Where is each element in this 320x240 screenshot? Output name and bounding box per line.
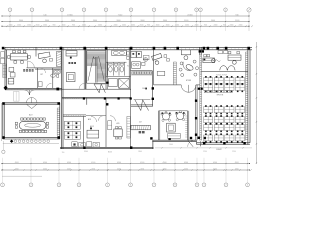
plant bbox=[144, 58, 148, 62]
right dimension line bbox=[256, 42, 257, 164]
office angled desk bbox=[152, 53, 170, 64]
svg-text:4500: 4500 bbox=[43, 162, 47, 164]
svg-text:1: 1 bbox=[203, 185, 204, 187]
columns bbox=[2, 47, 250, 149]
left bay window ladder bbox=[2, 64, 4, 78]
svg-text:2100: 2100 bbox=[195, 25, 199, 27]
svg-text:2250: 2250 bbox=[117, 168, 121, 170]
svg-text:2400: 2400 bbox=[114, 25, 118, 27]
svg-text:2400: 2400 bbox=[82, 25, 86, 27]
wc stalls bbox=[106, 62, 131, 76]
svg-text:150: 150 bbox=[62, 152, 65, 154]
svg-text:A112: A112 bbox=[90, 125, 94, 128]
glazing ladder bbox=[172, 62, 174, 85]
exec cluster 1 bbox=[203, 54, 221, 62]
entrance marker diamond bbox=[4, 86, 8, 90]
svg-text:6: 6 bbox=[130, 10, 131, 12]
svg-text:A18: A18 bbox=[88, 118, 91, 121]
shaft with X bbox=[106, 78, 129, 88]
tall cabinet x107 bbox=[108, 121, 112, 130]
svg-text:2400: 2400 bbox=[131, 25, 135, 27]
svg-text:1500: 1500 bbox=[156, 25, 160, 27]
svg-text:2250: 2250 bbox=[15, 168, 19, 170]
svg-text:1500: 1500 bbox=[27, 25, 31, 27]
svg-text:1: 1 bbox=[9, 10, 10, 12]
small bathroom upper-left bbox=[38, 70, 60, 88]
svg-text:2400: 2400 bbox=[9, 25, 13, 27]
svg-text:B1842: B1842 bbox=[216, 149, 221, 151]
svg-text:2100: 2100 bbox=[175, 25, 179, 27]
cabinet band x127 bbox=[127, 117, 130, 139]
svg-text:2100: 2100 bbox=[36, 25, 40, 27]
office mid-left desk bbox=[66, 51, 85, 90]
lobby exec desk bbox=[38, 52, 52, 63]
lobby cabinet bbox=[57, 52, 62, 67]
svg-text:2250: 2250 bbox=[91, 168, 95, 170]
svg-text:4500: 4500 bbox=[140, 162, 144, 164]
svg-text:4500: 4500 bbox=[184, 162, 188, 164]
svg-text:2250: 2250 bbox=[140, 168, 144, 170]
svg-text:E7988: E7988 bbox=[186, 80, 191, 82]
svg-text:20300: 20300 bbox=[187, 14, 193, 16]
svg-text:4500: 4500 bbox=[67, 162, 71, 164]
wall cabinets right block bbox=[218, 51, 223, 54]
corridor double door V bbox=[134, 100, 151, 111]
lobby partition stub bbox=[35, 47, 37, 56]
svg-text:1500: 1500 bbox=[166, 25, 170, 27]
svg-text:8: 8 bbox=[174, 185, 175, 187]
svg-text:5: 5 bbox=[107, 185, 108, 187]
middle room desk bbox=[87, 116, 103, 138]
misc labels bbox=[62, 144, 236, 154]
entrance double door bbox=[24, 90, 34, 95]
svg-text:2250: 2250 bbox=[184, 168, 188, 170]
sub-dimension line below building bbox=[155, 147, 252, 148]
left dimension bbox=[2, 103, 6, 154]
svg-text:3600: 3600 bbox=[19, 20, 23, 22]
svg-text:900: 900 bbox=[204, 25, 207, 27]
pantry top cabinets bbox=[131, 51, 149, 59]
partial third bottom tier left bbox=[2, 175, 42, 177]
svg-text:3300: 3300 bbox=[84, 151, 88, 153]
svg-text:1: 1 bbox=[2, 185, 3, 187]
svg-text:4500: 4500 bbox=[213, 162, 217, 164]
svg-text:9: 9 bbox=[196, 10, 197, 12]
bench bbox=[157, 71, 165, 75]
bottom dimension block bbox=[1, 158, 252, 187]
top dimension block bbox=[1, 8, 252, 31]
column at front wall bbox=[56, 88, 59, 91]
double door to lounge bbox=[181, 85, 196, 92]
svg-text:2250: 2250 bbox=[67, 168, 71, 170]
svg-text:4500: 4500 bbox=[15, 162, 19, 164]
lobby conference table bbox=[8, 50, 31, 63]
svg-text:2400: 2400 bbox=[122, 25, 126, 27]
svg-text:2400: 2400 bbox=[230, 25, 234, 27]
svg-text:1500: 1500 bbox=[43, 25, 47, 27]
svg-text:2: 2 bbox=[225, 10, 226, 12]
svg-text:1500: 1500 bbox=[62, 25, 66, 27]
svg-text:3600: 3600 bbox=[93, 20, 97, 22]
svg-text:A15: A15 bbox=[116, 122, 119, 125]
svg-text:2250: 2250 bbox=[203, 151, 207, 153]
svg-text:3600: 3600 bbox=[235, 20, 239, 22]
svg-text:1800: 1800 bbox=[138, 151, 142, 153]
porch steps bbox=[14, 92, 20, 102]
stair lower flight bbox=[94, 84, 105, 93]
svg-text:2250: 2250 bbox=[43, 168, 47, 170]
svg-text:900: 900 bbox=[53, 25, 56, 27]
lounge stools and table bbox=[179, 60, 198, 76]
washroom sinks bbox=[112, 50, 130, 59]
workstation cluster left room bbox=[65, 118, 92, 139]
svg-text:4: 4 bbox=[83, 10, 84, 12]
svg-text:3600: 3600 bbox=[140, 20, 144, 22]
svg-text:194: 194 bbox=[142, 88, 145, 90]
conference room double door bbox=[26, 98, 37, 109]
svg-text:2400: 2400 bbox=[169, 144, 173, 146]
exec cluster 2 bbox=[228, 51, 241, 64]
radiator chain row bbox=[131, 72, 153, 75]
svg-text:B203: B203 bbox=[108, 152, 112, 154]
interior walls bbox=[27, 47, 248, 148]
svg-text:19300: 19300 bbox=[67, 14, 73, 16]
svg-text:3600: 3600 bbox=[184, 20, 188, 22]
svg-text:8: 8 bbox=[175, 10, 176, 12]
svg-text:2: 2 bbox=[225, 185, 226, 187]
svg-text:A7: A7 bbox=[139, 120, 141, 123]
svg-text:4500: 4500 bbox=[235, 162, 239, 164]
svg-text:3600: 3600 bbox=[116, 20, 120, 22]
bottom fixtures row bbox=[72, 142, 100, 147]
svg-text:3: 3 bbox=[58, 185, 59, 187]
svg-text:3: 3 bbox=[61, 10, 62, 12]
svg-text:4: 4 bbox=[78, 185, 79, 187]
svg-text:2: 2 bbox=[30, 185, 31, 187]
svg-text:RP1H E: RP1H E bbox=[217, 95, 224, 97]
svg-text:3600: 3600 bbox=[211, 20, 215, 22]
svg-text:7: 7 bbox=[153, 185, 154, 187]
staircase bbox=[87, 51, 106, 84]
svg-text:5: 5 bbox=[105, 10, 106, 12]
svg-text:4500: 4500 bbox=[117, 162, 121, 164]
svg-text:2400: 2400 bbox=[98, 25, 102, 27]
svg-text:900: 900 bbox=[72, 25, 75, 27]
reception area label bbox=[23, 69, 33, 71]
window circles row below conference room bbox=[3, 140, 59, 144]
svg-text:3: 3 bbox=[247, 185, 248, 187]
svg-text:3600: 3600 bbox=[163, 20, 167, 22]
office2 desk bbox=[181, 50, 190, 60]
svg-text:2400: 2400 bbox=[214, 25, 218, 27]
svg-text:900: 900 bbox=[223, 25, 226, 27]
multi-function room bbox=[159, 111, 194, 147]
door right block bottom bbox=[200, 141, 206, 147]
svg-text:7: 7 bbox=[153, 10, 154, 12]
small room label bbox=[40, 68, 45, 76]
conference stadium table bbox=[15, 113, 48, 132]
svg-text:3600: 3600 bbox=[45, 20, 49, 22]
svg-text:900: 900 bbox=[147, 25, 150, 27]
svg-text:2250: 2250 bbox=[232, 151, 236, 153]
projection screen bbox=[131, 120, 151, 133]
svg-text:4500: 4500 bbox=[163, 162, 167, 164]
reception arcs bbox=[220, 66, 235, 71]
svg-text:2: 2 bbox=[31, 10, 32, 12]
svg-text:2400: 2400 bbox=[239, 25, 243, 27]
svg-text:1500: 1500 bbox=[17, 25, 21, 27]
office2 curved sofa bbox=[183, 62, 191, 71]
pantry counter bbox=[132, 62, 145, 69]
outdoor units left bbox=[1, 52, 5, 58]
building outer walls bbox=[5, 47, 252, 148]
sofa set bbox=[8, 67, 15, 84]
svg-text:3600: 3600 bbox=[71, 20, 75, 22]
svg-text:2250: 2250 bbox=[235, 168, 239, 170]
conference room block bbox=[2, 102, 60, 139]
small meeting table bbox=[110, 116, 122, 139]
small cabinets row bbox=[204, 91, 232, 93]
svg-text:9: 9 bbox=[196, 185, 197, 187]
svg-text:TJ: TJ bbox=[127, 66, 129, 68]
svg-text:2100: 2100 bbox=[140, 25, 144, 27]
svg-text:2400: 2400 bbox=[185, 25, 189, 27]
svg-text:6: 6 bbox=[130, 185, 131, 187]
svg-text:TJT15 73 TJT: TJT15 73 TJT bbox=[216, 74, 228, 76]
cubicle rows bbox=[204, 76, 245, 143]
svg-text:4500: 4500 bbox=[91, 162, 95, 164]
svg-text:1: 1 bbox=[200, 10, 201, 12]
